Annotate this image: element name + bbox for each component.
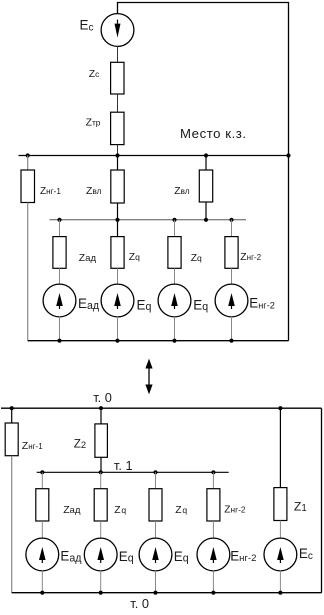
wire fault bus to Zvl2: [205, 156, 207, 171]
wire Zq to Eq: [117, 268, 119, 284]
node dot t1 br2: [99, 470, 103, 474]
bus t.0 bottom: [12, 592, 322, 594]
branch 2: wire bus to Zq: [117, 220, 119, 237]
resistor Z1: [274, 488, 287, 521]
resistor Zad (lower): [36, 489, 49, 521]
svg-text:Zад: Zад: [63, 505, 81, 516]
branch 5: wire t0 to Z1: [279, 408, 281, 487]
svg-text:Eq: Eq: [174, 549, 189, 565]
svg-text:Zвл: Zвл: [86, 186, 102, 197]
bottom bus of upper circuit: [28, 340, 289, 342]
wire Eq to bottom bus: [100, 571, 102, 593]
svg-text:Zq: Zq: [129, 252, 140, 263]
node dot bottom bus br3: [172, 339, 176, 343]
svg-text:Eс: Eс: [80, 17, 94, 33]
svg-text:Eад: Eад: [78, 296, 99, 312]
source Ec (system EMF), arrow down: [101, 14, 134, 47]
source Ead (upper), arrow up: [43, 284, 76, 317]
node dot fault bus / right edge: [286, 153, 290, 157]
wire Ec to Zc: [117, 46, 119, 62]
svg-text:Eq: Eq: [137, 297, 152, 313]
svg-text:Eнг-2: Eнг-2: [249, 296, 275, 311]
wire fault bus to Zvl1: [117, 156, 119, 171]
source Eq (upper #2), arrow up: [158, 284, 191, 317]
node dot bottom bus br4: [229, 339, 233, 343]
node dot t0 / Z1: [278, 406, 282, 410]
wire Ec to bottom bus: [279, 571, 281, 593]
wire t0 to Zng-1 (lower): [11, 408, 13, 423]
wire Zq to Eq: [155, 521, 157, 538]
source Eq (upper #1), arrow up: [101, 284, 134, 317]
resistor Zq (lower #1): [94, 489, 107, 521]
svg-text:т. 0: т. 0: [93, 390, 112, 405]
node dot t0b br4: [211, 591, 215, 595]
branch 3: wire t1 to Zq: [155, 472, 157, 488]
node dot t0b br5: [278, 591, 282, 595]
wire Eq to bottom bus: [174, 317, 176, 341]
node dot middle bus br2: [115, 218, 119, 222]
svg-text:Zвл: Zвл: [174, 186, 190, 197]
svg-text:Место к.з.: Место к.з.: [180, 126, 247, 141]
wire Eq to bottom bus: [155, 571, 157, 593]
middle bus (generator bus): [50, 219, 247, 221]
wire Z1 to Ec: [279, 521, 281, 539]
wire Eq to bottom bus: [117, 317, 119, 341]
wire Zng-2 to Eng-2: [231, 268, 233, 284]
bus t.1: [37, 471, 229, 473]
resistor Zq (lower #2): [149, 489, 162, 521]
node dot bottom bus br2: [115, 339, 119, 343]
svg-text:Zнг-1: Zнг-1: [22, 440, 43, 452]
svg-text:т. 1: т. 1: [114, 458, 133, 473]
resistor Zng-2 (upper): [225, 237, 238, 269]
resistor Zvl1: [111, 170, 124, 203]
wire right edge t0 top to t0 bottom: [321, 408, 323, 593]
svg-text:Zq: Zq: [175, 505, 187, 516]
node dot t1 br4: [211, 470, 215, 474]
resistor Zng-2 (lower): [207, 489, 220, 521]
wire Ead to bottom bus: [59, 317, 61, 341]
svg-text:Eс: Eс: [299, 546, 313, 562]
branch 2: wire t1 to Zq: [100, 472, 102, 488]
wire Zad to Ead: [41, 521, 43, 538]
svg-text:Eад: Eад: [60, 549, 81, 565]
wire Ztr to fault bus: [117, 145, 119, 156]
wire t0 to Z2: [100, 408, 102, 424]
wire Zq to Eq: [174, 268, 176, 284]
resistor Zng-1 (upper): [21, 170, 35, 203]
node dot middle bus br3: [172, 218, 176, 222]
svg-text:Zнг-1: Zнг-1: [40, 186, 61, 197]
resistor Z2: [95, 424, 108, 457]
wire Eng-2 to bottom bus: [231, 317, 233, 341]
svg-text:Zq: Zq: [114, 505, 126, 516]
node dot t0 / Z2: [99, 406, 103, 410]
node dot t0b br2: [99, 591, 103, 595]
resistor Zad (upper): [53, 237, 66, 269]
node dot fault bus / Zng-1: [26, 153, 30, 157]
resistor Zvl2: [199, 170, 212, 202]
branch 4: wire bus to Zng-2: [231, 220, 233, 237]
source Eq (lower #2), arrow up: [139, 538, 172, 571]
node dot middle bus Zvl2: [204, 218, 208, 222]
wire Zng-2 to Eng-2: [212, 521, 214, 538]
source Ec (lower), arrow up: [264, 538, 297, 571]
wire right edge from fault bus down to bottom bus: [288, 156, 290, 341]
svg-text:Zq: Zq: [191, 253, 202, 264]
wire from Ec source top, across top, down right side to fault bus: [118, 3, 289, 156]
wire Zvl2 to middle bus: [205, 202, 207, 220]
wire Zng-1 down left side to bottom bus: [27, 203, 29, 341]
svg-text:Zтр: Zтр: [86, 117, 101, 128]
node dot t0b br1: [40, 591, 44, 595]
branch 1: wire t1 to Zad: [41, 472, 43, 488]
resistor Zq (upper #1): [111, 237, 124, 269]
wire Z2 to bus t1: [100, 457, 102, 472]
svg-text:т. 0: т. 0: [130, 596, 149, 611]
wire Zvl1 to middle bus: [117, 203, 119, 220]
wire Zng-1 down left edge to bottom bus: [11, 456, 13, 593]
svg-text:Zнг-2: Zнг-2: [240, 252, 261, 263]
wire fault bus to Zng-1: [27, 156, 29, 171]
resistor Ztr: [111, 112, 124, 144]
resistor Zq (upper #2): [168, 237, 181, 269]
svg-text:Z2: Z2: [74, 437, 86, 450]
source Eng-2 (lower), arrow up: [197, 538, 230, 571]
wire Zc to Ztr: [117, 94, 119, 112]
bus t.0 top: [1, 407, 322, 409]
wire Eng-2 to bottom bus: [212, 571, 214, 593]
node dot middle bus br1: [57, 218, 61, 222]
node dot t1 br1: [40, 470, 44, 474]
svg-text:Zад: Zад: [79, 253, 97, 264]
source Eng-2 (upper), arrow up: [215, 284, 248, 317]
resistor Zng-1 (lower): [5, 423, 18, 456]
source Eq (lower #1), arrow up: [84, 538, 117, 571]
node dot fault bus / Zvl1: [115, 153, 119, 157]
source Ead (lower), arrow up: [26, 538, 59, 571]
wire Zq to Eq: [100, 521, 102, 538]
branch 3: wire bus to Zq: [174, 220, 176, 237]
node dot fault bus / Zvl2: [204, 153, 208, 157]
wire Zad to Ead: [59, 268, 61, 284]
node dot t1 br3: [153, 470, 157, 474]
svg-text:Zс: Zс: [89, 69, 100, 80]
svg-text:Eq: Eq: [193, 297, 208, 313]
node dot t0b br3: [153, 591, 157, 595]
svg-text:Z1: Z1: [294, 500, 307, 514]
svg-text:Zнг-2: Zнг-2: [224, 505, 246, 516]
node dot middle bus br4: [229, 218, 233, 222]
double-headed arrow between circuits: [145, 359, 152, 395]
resistor Zc: [111, 62, 124, 94]
fault bus: [19, 155, 289, 157]
wire Ead to bottom bus: [41, 571, 43, 593]
branch 4: wire t1 to Zng-2: [212, 472, 214, 488]
node dot t0 / Zng-1: [10, 406, 14, 410]
svg-text:Eнг-2: Eнг-2: [230, 549, 256, 565]
branch 1: wire bus to Zad: [59, 220, 61, 237]
node dot bottom bus br1: [57, 339, 61, 343]
svg-text:Eq: Eq: [119, 549, 134, 565]
